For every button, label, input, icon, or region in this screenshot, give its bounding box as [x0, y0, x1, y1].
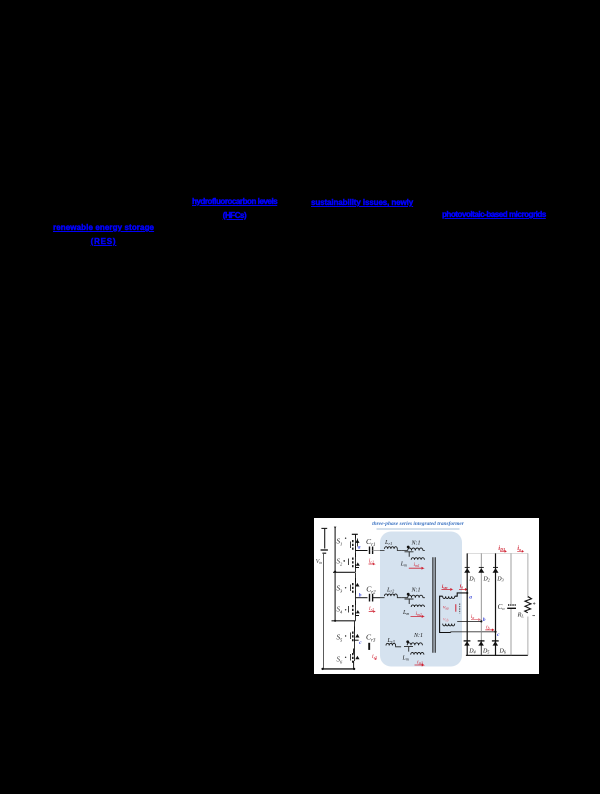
transformer core [433, 557, 435, 653]
stub S6 to bottom rail [353, 661, 355, 669]
svg-text:b: b [483, 617, 486, 623]
rectifier top rail [467, 552, 528, 554]
junction battery negative / bottom rail [321, 668, 323, 670]
svg-text:three-phase series integrated: three-phase series integrated transforme… [372, 521, 465, 527]
battery Vin: top bar [321, 527, 327, 529]
leg 3 wire [354, 621, 356, 661]
svg-text:D1: D1 [468, 577, 475, 583]
svg-text:a: a [358, 544, 361, 550]
svg-text:N:1: N:1 [411, 588, 421, 594]
junction node c / rectifier leg 3 [494, 631, 496, 633]
mid rail 2 [332, 620, 356, 622]
diode D1 [464, 568, 470, 573]
svg-text:N:1: N:1 [411, 540, 421, 546]
rectifier leg 2 [480, 553, 482, 640]
gate dot S5 [345, 635, 346, 636]
node c wire (phase c midpoint stub) [355, 639, 359, 641]
wire to node b [457, 620, 481, 622]
gate dot S3 [345, 587, 346, 588]
switch S6 [351, 649, 354, 663]
wire to node a [455, 593, 468, 596]
svg-text:D6: D6 [499, 648, 506, 654]
primary winding 2 (N:1) [408, 595, 423, 598]
output voltage marks [533, 602, 535, 604]
switch S1 [351, 534, 358, 550]
link: hydrofluorocarbon levels (HFCs) [192, 195, 277, 223]
capacitor Cr3 (vertical) [368, 643, 370, 650]
rectifier leg 3 [495, 553, 497, 655]
svg-text:D5: D5 [482, 648, 489, 654]
figure background [314, 518, 539, 674]
switch S5 [351, 627, 355, 642]
switch S2 [349, 553, 359, 568]
svg-text:Lm: Lm [402, 655, 409, 661]
transformer region (blue rounded box) [380, 532, 462, 667]
junction node b / rectifier leg 2 [480, 620, 482, 622]
junction bus / mid rail 1 [334, 571, 336, 573]
gate dot S4 [345, 609, 346, 610]
capacitor Co [508, 604, 516, 606]
link: essential lithium-ion supply [311, 196, 413, 210]
junction leg 3 / bottom rail [353, 668, 355, 670]
figure: three-phase LLC resonant converter schematic [314, 518, 539, 674]
secondary bracket wire [440, 596, 451, 632]
title underline [377, 528, 460, 530]
wire to node c [451, 631, 496, 634]
mid rail 1 [333, 571, 356, 573]
switch S3 [351, 578, 356, 595]
diode D3 [493, 568, 499, 573]
capacitor Cr2 [370, 594, 381, 602]
svg-text:b: b [359, 592, 362, 598]
load branch wire [527, 553, 529, 655]
magnetizing inductor Lm2 [405, 599, 414, 604]
input bus top arrowhead [334, 527, 337, 529]
diode D5 [478, 641, 484, 645]
svg-text:a: a [469, 595, 472, 601]
diode D2 [478, 568, 484, 573]
rectifier leg 1 [466, 553, 468, 655]
link: renewable energy sources (RES) [53, 221, 154, 249]
link: photovoltaic based microgrids [442, 208, 546, 222]
secondary winding B [443, 624, 455, 626]
magnetizing inductor Lm1 [405, 552, 414, 557]
svg-text:D3: D3 [496, 577, 503, 583]
battery Vin: body [324, 528, 326, 548]
battery negative wire [323, 554, 325, 669]
resistor RL (zigzag) [525, 597, 532, 613]
gate dot S6 [345, 657, 346, 658]
input bus [334, 528, 336, 621]
svg-text:Lm: Lm [402, 610, 409, 616]
magnetizing inductor Lm3 [404, 647, 413, 652]
rectifier bottom rail [466, 654, 528, 656]
node b wire (phase b midpoint to Cr2) [356, 597, 368, 599]
primary winding 1 (N:1) [408, 548, 423, 551]
svg-text:Lm: Lm [400, 562, 407, 568]
junction node a / rectifier leg 1 [466, 592, 468, 594]
inductor Lr1 [385, 547, 398, 549]
node a wire (phase a midpoint to Cr1) [356, 550, 368, 552]
gate dot S1 [345, 538, 346, 539]
switch S4 [349, 601, 359, 617]
diode D4 [464, 641, 470, 645]
leg 1 wire [355, 534, 357, 572]
bottom rail (input side) [323, 668, 355, 670]
output branch wire [510, 553, 512, 655]
svg-text:D4: D4 [468, 648, 475, 654]
junction bus / mid rail 2 [334, 620, 336, 622]
inductor Lr3 [386, 643, 396, 645]
inductor Lr2 [385, 594, 398, 596]
secondary winding A [443, 596, 455, 598]
diode D6 [493, 641, 499, 645]
svg-text:D2: D2 [482, 577, 489, 583]
capacitor Cr1 [370, 547, 381, 555]
primary winding 3 (N:1) [407, 643, 422, 646]
svg-text:N:1: N:1 [413, 633, 423, 639]
leg 2 wire [355, 573, 357, 621]
